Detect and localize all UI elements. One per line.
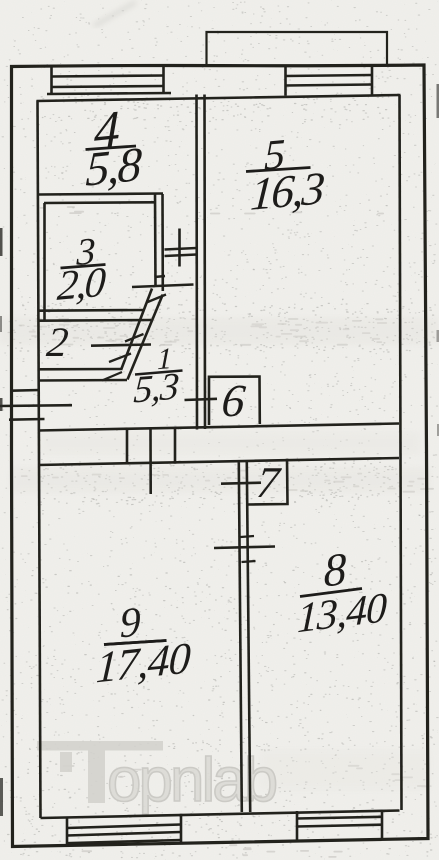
wall between corridor 1 and room 5: left line — [195, 95, 198, 430]
window W2 right jamb — [371, 65, 374, 95]
door in wall 9-8: long tick — [214, 547, 275, 549]
diagonal wall hatch tick 1 — [147, 295, 167, 303]
inner face of left wall — [38, 101, 41, 819]
room 3 enclosure: outer right line — [161, 194, 164, 291]
room 3 enclosure: inner right line — [154, 194, 157, 287]
room 2 bottom wall: upper line — [39, 368, 121, 371]
window W1 glazing line 1 — [52, 76, 164, 77]
window W3 glazing line 1 — [67, 825, 181, 829]
diagonal wall hatch tick 4 — [102, 372, 122, 381]
window W1 sill — [47, 93, 171, 94]
wall between room 3 and room 2: upper line — [39, 309, 144, 312]
leader line of label 2 — [91, 345, 151, 346]
diagonal corridor wall: left line — [121, 289, 152, 371]
room 1 number label "1 / 5,3" — [127, 340, 184, 411]
wall between rooms 9 and 8: left line — [239, 463, 242, 813]
faint bleed-through bands — [0, 318, 439, 790]
vent shaft: vertical stroke — [178, 229, 181, 267]
window W1 right jamb — [162, 66, 165, 93]
window W2 glazing line 1 — [286, 75, 373, 76]
middle wall (corridor/rooms 9-8): upper line — [38, 424, 399, 431]
door in wall 9-8: lower short tick — [242, 561, 256, 562]
middle wall door: leaf into room 9 — [149, 430, 152, 495]
room 8 number label "8 / 13,40" — [285, 538, 393, 642]
room 5 fraction bar — [246, 168, 311, 172]
window W3 glazing line 2 — [67, 832, 181, 836]
room 7 closet box — [248, 459, 288, 505]
inner face of right wall — [400, 95, 402, 810]
room 1 fraction bar — [135, 371, 183, 375]
watermark Topnlab — [37, 741, 276, 815]
window W3 glazing line 3 — [67, 840, 181, 843]
window W1 glazing line 2 — [52, 86, 164, 87]
window W3 in bottom wall, room 9: left jamb — [66, 819, 69, 847]
room 8 fraction bar — [300, 589, 362, 597]
room 2 bottom wall: lower line — [39, 379, 127, 382]
inner face of bottom wall — [41, 811, 400, 819]
diagonal wall hatch tick 3 — [109, 354, 131, 363]
diagonal corridor wall: right line — [128, 295, 163, 380]
window W2 in top wall, room 5: left jamb — [284, 66, 287, 96]
window W4 glazing line 2 — [297, 825, 382, 827]
leader line of label 7 / door mark rooms 8-7 — [221, 483, 261, 484]
room 3 number label "3 / 2,0" — [49, 229, 111, 309]
wall between corridor 1 and room 5: right line — [203, 95, 206, 430]
room 3 enclosure: inner left line — [43, 203, 46, 321]
faint pencil streak top-left — [94, 2, 136, 26]
vent shaft: lower tick — [165, 255, 197, 257]
window W1 in top wall, room 4: left jamb — [50, 67, 53, 94]
room 5 number label "5 / 16,3" — [241, 127, 330, 221]
middle wall door: right jamb — [174, 429, 177, 464]
room 6 closet box — [209, 377, 260, 426]
diagonal wall hatch tick 2 — [125, 334, 144, 342]
wall between rooms 9 and 8: right line — [247, 462, 250, 812]
room 3 enclosure: outer top line — [39, 194, 163, 195]
window W4 in bottom wall, room 8: left jamb — [296, 811, 299, 841]
door mark between corridor 1 and room 5 — [185, 399, 218, 400]
entrance door: open leaf line — [0, 404, 72, 407]
window W3 right jamb — [180, 814, 183, 843]
door in wall 9-8: upper short tick — [241, 536, 255, 537]
room 9 number label "9 / 17,40" — [86, 593, 197, 692]
wall between room 3 and room 2: lower line — [39, 319, 151, 322]
entrance door: lower jamb tick — [9, 418, 45, 421]
room 4 fraction bar — [86, 146, 137, 150]
balcony outline (top) — [207, 32, 388, 65]
room 3 fraction bar — [61, 265, 106, 269]
room 3 enclosure: inner top line — [44, 201, 154, 204]
room 4 number label "4" — [75, 99, 148, 197]
entrance door: upper jamb tick — [11, 389, 40, 392]
window W4 right jamb — [381, 810, 384, 839]
vent shaft: upper tick — [165, 248, 197, 250]
middle wall door: left jamb — [126, 430, 129, 465]
middle wall: lower line — [38, 458, 399, 465]
room 9 fraction bar — [104, 641, 167, 645]
leader line of label 2,0 — [132, 285, 194, 288]
room 3 right wall end cap — [155, 276, 166, 277]
window W4 glazing line 1 — [297, 817, 382, 819]
window W2 glazing line 2 — [286, 85, 373, 86]
inner face of top wall — [37, 95, 401, 101]
